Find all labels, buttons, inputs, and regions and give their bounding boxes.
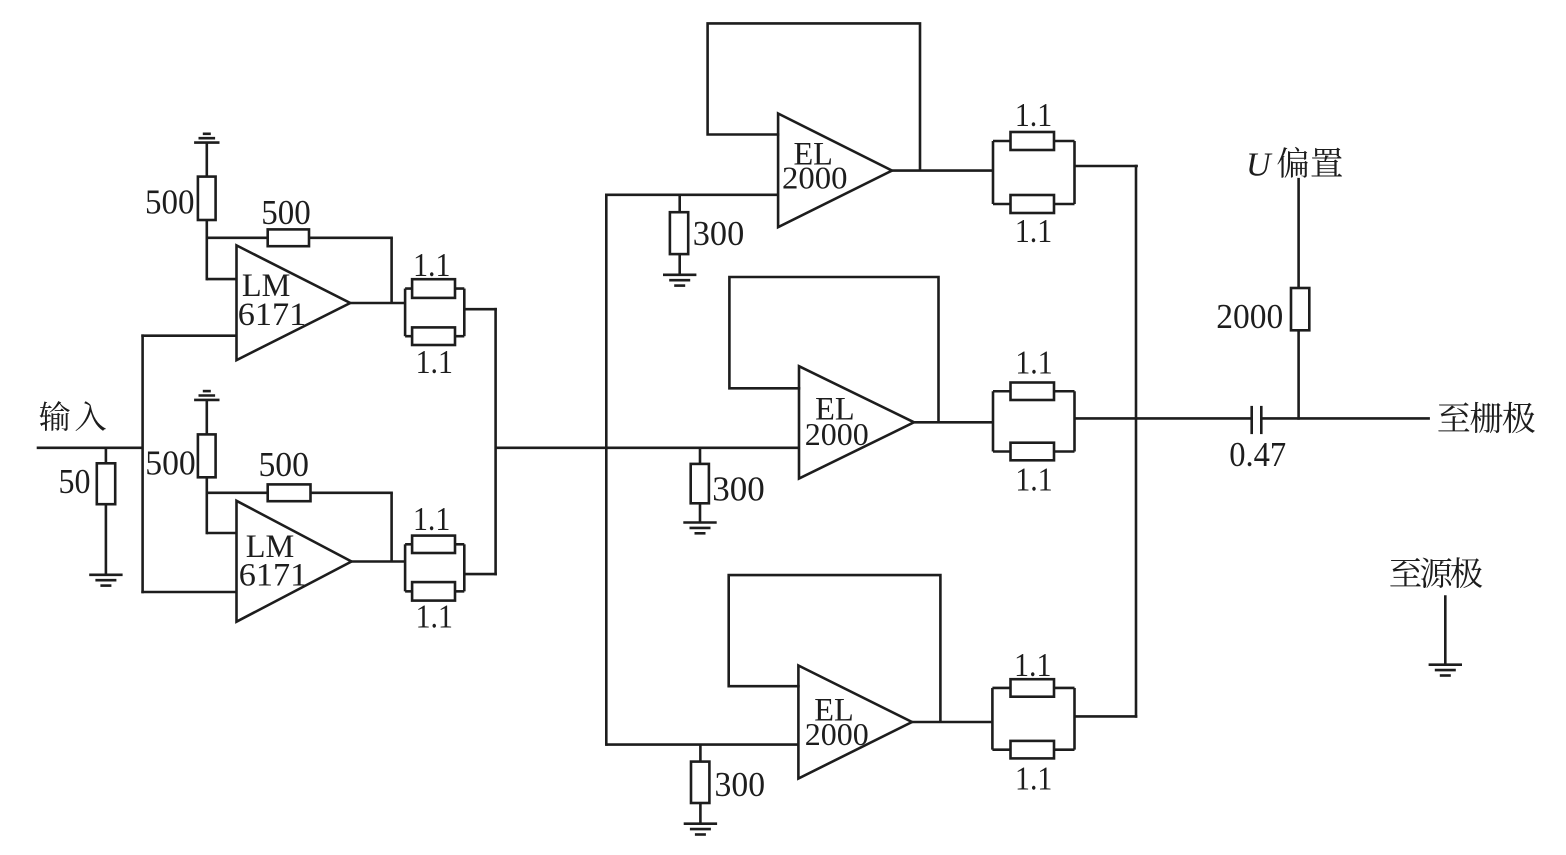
- svg-text:2000: 2000: [805, 716, 869, 752]
- ground below R10: [663, 275, 696, 286]
- capacitor C1 0.47: [1252, 406, 1262, 434]
- wire feedback down to U2 output: [390, 493, 393, 562]
- wire combiner vertical: [494, 308, 497, 576]
- wire source lead: [1444, 595, 1447, 664]
- wire R8 to output node: [1297, 330, 1300, 419]
- svg-text:1.1: 1.1: [416, 599, 453, 636]
- wire bias label to R8: [1297, 178, 1300, 288]
- node input junction vertical wire: [141, 334, 144, 593]
- resistor R3 500 (U2 inverting input to ground): [198, 434, 216, 477]
- svg-text:1.1: 1.1: [416, 344, 453, 381]
- wire 300 stub (U5): [699, 745, 702, 762]
- resistor R9 50 (input termination): [97, 463, 115, 504]
- wire capacitor to gate output: [1261, 417, 1430, 420]
- svg-text:6171: 6171: [239, 558, 308, 594]
- svg-text:500: 500: [261, 193, 311, 232]
- wire bus to U4 input: [606, 446, 799, 449]
- svg-text:1.1: 1.1: [1015, 213, 1052, 250]
- resistor R10 300 (U3 input to ground): [670, 212, 688, 254]
- resistor R4 500 (U2 feedback): [268, 484, 311, 501]
- svg-text:U: U: [1246, 147, 1273, 184]
- label U偏置: [1246, 147, 1342, 184]
- wire pair output to bus: [1075, 715, 1138, 718]
- node A wire to R2: [207, 237, 268, 240]
- wire U2 output: [352, 560, 406, 563]
- resistor pair R15a/R15b 1.1 (U5 output): [992, 679, 1074, 758]
- ground above R3: [194, 391, 219, 400]
- svg-text:1.1: 1.1: [1015, 462, 1052, 499]
- svg-text:500: 500: [258, 445, 309, 484]
- wire to U2 non-inverting input: [141, 591, 236, 594]
- svg-text:500: 500: [145, 444, 196, 483]
- wire feedback down to U1 output: [390, 238, 393, 303]
- svg-text:1.1: 1.1: [1015, 97, 1052, 134]
- wire U5 output: [912, 721, 992, 724]
- svg-text:1.1: 1.1: [1015, 345, 1052, 382]
- resistor R12 300 (U4 input to ground): [691, 464, 709, 503]
- svg-text:1.1: 1.1: [1014, 647, 1051, 684]
- svg-text:500: 500: [145, 182, 195, 221]
- wire R3 to node B: [206, 477, 209, 494]
- svg-text:300: 300: [715, 765, 766, 804]
- wire to U1 inverting input: [207, 278, 237, 281]
- wire R12 to ground: [699, 503, 702, 522]
- ground below R14: [684, 824, 717, 835]
- wire combiner to bus: [496, 446, 608, 449]
- wire R14 to ground: [699, 803, 702, 824]
- ground above R1: [194, 134, 219, 143]
- svg-text:1.1: 1.1: [1015, 761, 1052, 798]
- resistor R8 2000 (bias): [1291, 288, 1309, 330]
- resistor pair R6a/R6b 1.1 (U2 output): [405, 536, 464, 601]
- wire R1 to node A: [206, 220, 209, 239]
- resistor pair R13a/R13b 1.1 (U4 output): [993, 383, 1075, 461]
- svg-text:2000: 2000: [782, 159, 848, 195]
- wire U4 output: [914, 421, 993, 424]
- wire U3 output: [892, 169, 993, 172]
- svg-text:1.1: 1.1: [413, 501, 450, 538]
- wire output bus right: [1135, 165, 1138, 718]
- wire distribution bus left: [605, 194, 608, 746]
- wire bus to U5 input: [606, 743, 798, 746]
- label 至源极: [1390, 557, 1482, 588]
- op-amp U1 LM6171: [237, 245, 351, 360]
- wire 300 stub (U4): [699, 448, 702, 464]
- wire 300 stub (U3): [678, 195, 681, 212]
- ground source terminal: [1429, 665, 1462, 676]
- svg-text:6171: 6171: [238, 297, 307, 333]
- wire R4 to feedback corner: [311, 491, 393, 494]
- buffer U4 EL2000: [799, 366, 914, 478]
- resistor pair R5a/R5b 1.1 (U1 output): [405, 279, 464, 345]
- wire pair output to bus: [1075, 165, 1138, 168]
- wire pair output to combiner: [464, 308, 497, 311]
- buffer U3 EL2000: [778, 114, 892, 228]
- wire U4 feedback loop: [729, 277, 938, 422]
- wire U3 feedback loop: [708, 23, 920, 170]
- svg-text:300: 300: [693, 214, 745, 253]
- wire input: [37, 446, 143, 449]
- ground below 50 resistor: [89, 575, 122, 586]
- wire to U1 non-inverting input: [141, 334, 236, 337]
- resistor R2 500 (U1 feedback): [268, 229, 309, 246]
- wire ground to R3: [206, 400, 209, 435]
- svg-text:2000: 2000: [805, 416, 869, 452]
- wire ground to R1: [206, 143, 209, 177]
- label 至栅极: [1438, 402, 1535, 433]
- wire to U2 inverting input: [207, 532, 237, 535]
- wire U1 output: [350, 302, 405, 305]
- wire 50-resistor top stub: [105, 447, 108, 464]
- resistor R14 300 (U5 input to ground): [691, 762, 709, 803]
- wire main output to capacitor: [1075, 417, 1252, 420]
- ground below R12: [683, 523, 716, 534]
- buffer U5 EL2000: [798, 666, 912, 779]
- wire U5 feedback loop: [729, 575, 941, 722]
- resistor pair R11a/R11b 1.1 (U3 output): [993, 132, 1075, 213]
- svg-text:300: 300: [712, 469, 765, 508]
- wire R10 to ground: [678, 254, 681, 275]
- wire bus to U3 input: [606, 194, 778, 197]
- wire pair output to combiner: [464, 573, 497, 576]
- svg-text:2000: 2000: [1216, 297, 1283, 336]
- node B wire to R4: [207, 491, 268, 494]
- svg-text:50: 50: [59, 462, 91, 501]
- wire node B down: [206, 493, 209, 535]
- input label 输入: [39, 401, 105, 431]
- wire node A down: [206, 238, 209, 281]
- op-amp U2 LM6171: [237, 501, 352, 622]
- resistor R1 500 (U1 inverting input to ground): [198, 177, 216, 220]
- svg-text:1.1: 1.1: [413, 247, 450, 284]
- wire 50-resistor to ground: [105, 504, 108, 575]
- svg-text:0.47: 0.47: [1229, 435, 1286, 474]
- wire R2 to feedback corner: [309, 237, 393, 240]
